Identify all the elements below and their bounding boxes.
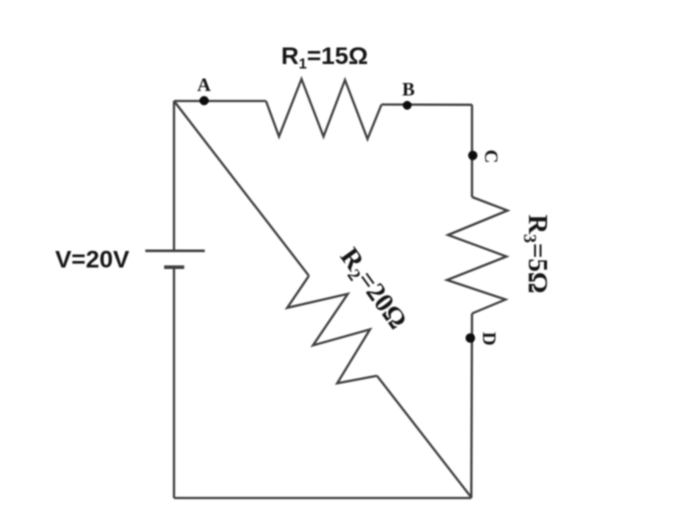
wire R3 bottom through D to bottom-right corner [470,314,473,499]
resistor R2 diagonal zigzag [287,276,377,384]
node B junction dot [403,101,412,110]
svg-text:R1=15Ω: R1=15Ω [281,43,368,73]
wire bottom [174,497,471,499]
svg-text:R3=5Ω: R3=5Ω [520,214,553,293]
wire left side bottom (battery - to bottom corner) [173,267,175,498]
wire left side top (A to battery +) [173,101,175,251]
svg-text:R2=20Ω: R2=20Ω [332,242,413,336]
node C junction dot [468,151,477,160]
wire diagonal lower (R2 to bottom-right corner) [377,376,472,498]
resistor R3 zigzag [447,197,508,314]
svg-text:V=20V: V=20V [55,247,130,274]
wire top-left (node A segment) [174,100,266,102]
svg-text:D: D [478,332,499,346]
node A junction dot [200,96,209,105]
battery V1 long plate (+) [145,249,205,252]
wire R1 to top-right corner via node B [382,103,473,106]
svg-text:C: C [480,150,501,164]
wire right side B corner down to C and R3 top [471,105,473,197]
svg-text:B: B [402,80,415,101]
wire diagonal upper (A to R2) [174,101,309,276]
node D junction dot [466,333,476,343]
resistor R1 zigzag [266,79,382,139]
svg-text:A: A [197,75,211,96]
battery V1 short plate (-) [164,265,184,269]
